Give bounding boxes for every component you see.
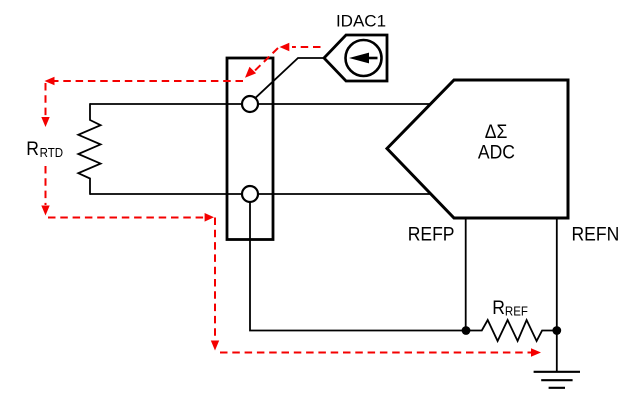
svg-text:ΔΣ: ΔΣ [485, 120, 508, 142]
svg-text:REFN: REFN [572, 223, 620, 245]
svg-text:ADC: ADC [478, 141, 515, 163]
svg-text:IDAC1: IDAC1 [336, 12, 386, 31]
svg-text:R: R [492, 296, 505, 318]
svg-text:REF: REF [505, 304, 528, 319]
svg-text:REFP: REFP [408, 223, 455, 245]
svg-text:R: R [26, 137, 39, 159]
svg-text:RTD: RTD [40, 145, 64, 160]
